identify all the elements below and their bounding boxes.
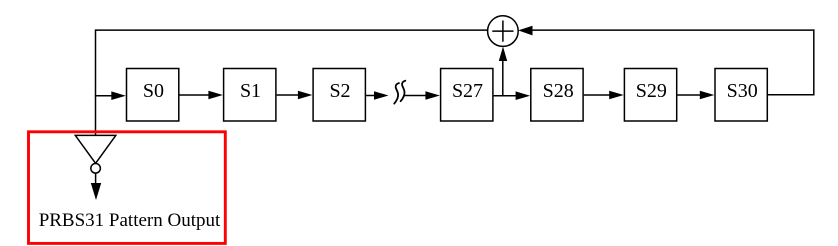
svg-text:S27: S27 — [452, 80, 483, 102]
wire break to S27 — [405, 95, 427, 97]
arrowhead into S29 — [609, 91, 624, 100]
red highlight box — [29, 132, 226, 244]
arrowhead into S30 — [700, 91, 715, 100]
svg-text:S29: S29 — [636, 80, 667, 102]
svg-text:S30: S30 — [727, 80, 758, 102]
wire S27 to S28 — [494, 95, 517, 97]
wire right vertical (S30 output up) — [813, 29, 815, 95]
xor adder U1 — [488, 16, 519, 47]
arrowhead at break — [374, 91, 389, 100]
wire top feedback horizontal (XOR output to left) — [96, 29, 489, 31]
arrowhead into S2 — [298, 91, 313, 100]
arrowhead into S1 — [208, 91, 223, 100]
wire S2 to break — [366, 95, 375, 97]
svg-text:S28: S28 — [543, 80, 574, 102]
wire S30 output to right vertical — [768, 94, 815, 96]
register box S28 — [531, 69, 583, 122]
arrowhead into XOR right — [518, 26, 532, 36]
svg-text:S1: S1 — [240, 80, 261, 102]
register box S29 — [624, 69, 676, 122]
wire tap from S27 output up to XOR — [502, 56, 504, 96]
register box S30 — [715, 69, 767, 122]
inverter bubble — [91, 164, 101, 174]
wire S0 to S1 — [179, 94, 209, 96]
break squiggle (chain ellipsis) — [394, 81, 405, 104]
wire S28 to S29 — [584, 94, 610, 96]
svg-text:PRBS31 Pattern Output: PRBS31 Pattern Output — [39, 210, 221, 231]
register box S2 — [313, 69, 365, 122]
wire bubble to output arrow — [95, 173, 97, 184]
arrowhead into XOR bottom — [499, 47, 507, 62]
inverter buffer (output driver) — [75, 135, 116, 163]
arrowhead into S0 — [111, 91, 126, 100]
wire S1 to S2 — [277, 94, 299, 96]
arrowhead into S27 — [425, 91, 440, 100]
svg-text:S2: S2 — [329, 80, 350, 102]
wire left vertical feedback — [95, 29, 97, 135]
svg-text:S0: S0 — [143, 80, 164, 102]
wire input branch to S0 — [95, 95, 113, 97]
arrowhead into S28 — [516, 91, 531, 100]
register box S1 — [224, 69, 276, 122]
wire S29 to S30 — [677, 94, 701, 96]
arrowhead output down — [91, 183, 101, 200]
label PRBS31 Pattern Output — [39, 210, 221, 231]
wire top right horizontal (S30 to XOR input) — [531, 29, 815, 31]
register box S27 — [441, 69, 493, 122]
register box S0 — [127, 69, 179, 122]
